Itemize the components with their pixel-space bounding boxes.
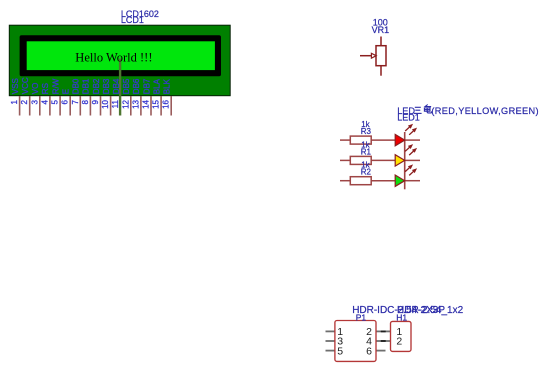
svg-text:2: 2 (396, 336, 402, 348)
svg-text:7: 7 (71, 99, 80, 104)
svg-text:P1: P1 (356, 312, 367, 322)
svg-text:10: 10 (101, 99, 110, 108)
svg-text:DB1: DB1 (82, 78, 91, 94)
svg-text:DB2: DB2 (92, 78, 101, 94)
svg-text:3: 3 (30, 99, 39, 104)
svg-text:BLA: BLA (152, 78, 161, 94)
svg-text:VSS: VSS (11, 78, 20, 94)
svg-text:RS: RS (41, 83, 50, 94)
svg-text:H1: H1 (396, 312, 407, 322)
svg-text:R2: R2 (361, 168, 372, 177)
svg-text:DB4: DB4 (112, 78, 121, 94)
svg-text:13: 13 (131, 99, 140, 108)
svg-text:1: 1 (10, 99, 19, 104)
svg-text:6: 6 (61, 99, 70, 104)
svg-text:R1: R1 (361, 147, 372, 156)
svg-text:R3: R3 (361, 127, 372, 136)
svg-text:14: 14 (142, 99, 151, 108)
svg-text:16: 16 (162, 99, 171, 108)
svg-text:DB3: DB3 (102, 78, 111, 94)
svg-text:11: 11 (111, 99, 120, 108)
svg-text:R/W: R/W (51, 78, 60, 94)
svg-text:(RED,YELLOW,GREEN): (RED,YELLOW,GREEN) (431, 106, 539, 116)
svg-text:Hello World !!!: Hello World !!! (75, 51, 152, 65)
svg-text:E: E (62, 89, 71, 94)
svg-text:4: 4 (40, 99, 49, 104)
svg-text:LCD1: LCD1 (121, 15, 144, 25)
svg-text:5: 5 (51, 99, 60, 104)
svg-text:DB7: DB7 (142, 78, 151, 94)
svg-text:VR1: VR1 (372, 25, 390, 35)
svg-text:2: 2 (20, 99, 29, 104)
svg-text:DB5: DB5 (122, 78, 131, 94)
svg-text:15: 15 (152, 99, 161, 108)
svg-text:VO: VO (31, 83, 40, 95)
svg-text:8: 8 (81, 99, 90, 104)
svg-text:9: 9 (91, 99, 100, 104)
svg-text:BLK: BLK (163, 78, 172, 94)
svg-text:VCC: VCC (21, 77, 30, 94)
svg-text:DB6: DB6 (132, 78, 141, 94)
svg-text:6: 6 (366, 345, 372, 357)
svg-text:DB0: DB0 (72, 78, 81, 94)
svg-text:5: 5 (337, 345, 343, 357)
svg-text:LED1: LED1 (397, 113, 420, 123)
svg-text:12: 12 (121, 99, 130, 108)
